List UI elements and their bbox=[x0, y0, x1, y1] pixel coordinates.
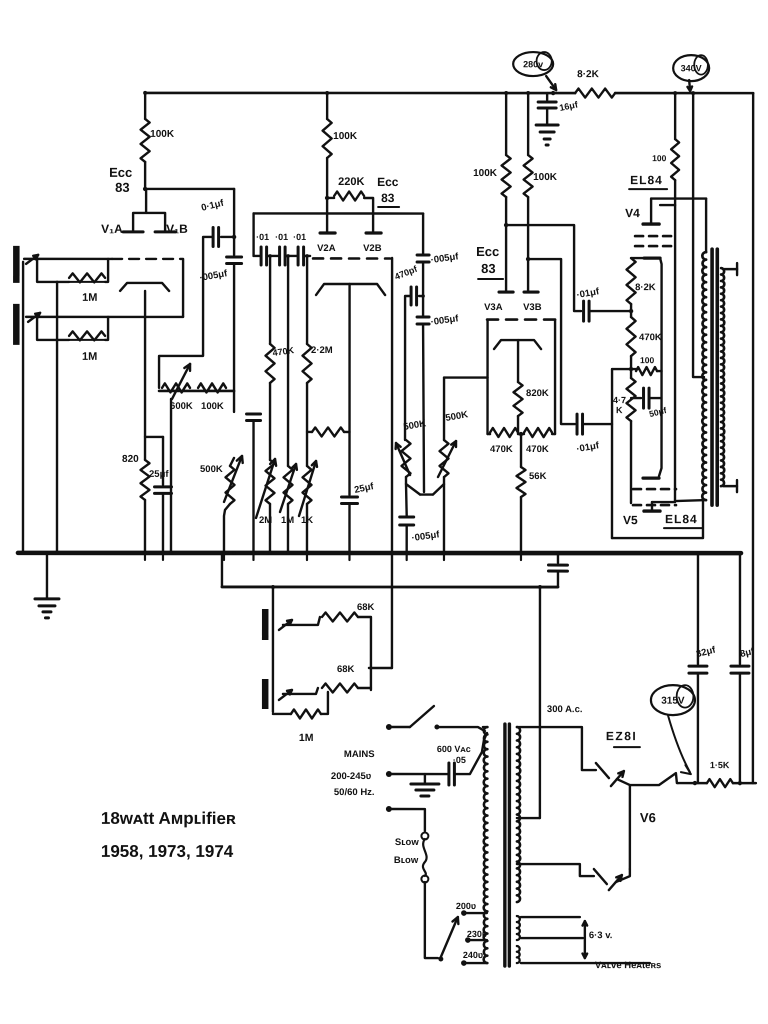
wire C2 left lead down bbox=[159, 237, 213, 388]
svg-text:MAINS: MAINS bbox=[344, 749, 375, 760]
node 470pf tap bbox=[421, 294, 425, 298]
svg-text:200-245ʋ: 200-245ʋ bbox=[331, 771, 372, 782]
wire rectifier output A bbox=[617, 773, 678, 785]
wire heater mid bbox=[521, 937, 583, 939]
svg-text:V₁A: V₁A bbox=[101, 222, 123, 236]
label C2 0.1uF bbox=[200, 197, 226, 213]
wire drop3 mid bbox=[306, 383, 308, 466]
junction bus dot 18 bbox=[738, 551, 742, 555]
wire 220K to V2B plate bbox=[364, 198, 373, 233]
arrow VR7 wiper bbox=[438, 441, 456, 477]
svg-text:V5: V5 bbox=[623, 513, 638, 527]
junction bus2 dot a bbox=[271, 585, 275, 589]
svg-text:820K: 820K bbox=[526, 388, 549, 399]
wire N lead bbox=[392, 773, 448, 775]
tube V6 plate B bbox=[594, 869, 607, 884]
wire V1 cathode drop bbox=[144, 291, 146, 460]
wire V3 box right bbox=[554, 320, 556, 435]
svg-text:280v: 280v bbox=[523, 59, 543, 69]
svg-text:Ecc: Ecc bbox=[476, 244, 499, 259]
wire 1M jack shunt bbox=[273, 713, 291, 715]
arrow VR1 wiper bbox=[172, 364, 190, 399]
wire tone chain top corner bbox=[422, 214, 424, 255]
arrow VR5 wiper bbox=[299, 461, 317, 516]
potentiometer VR2 500K bbox=[226, 466, 235, 504]
wire VR7 diagonal to cup bbox=[433, 484, 444, 495]
junction bus stub 1 bbox=[144, 553, 146, 560]
wire V3 cathode drop bbox=[517, 340, 519, 382]
wire VR1 wiper to bus bbox=[170, 399, 172, 553]
label R13 820K bbox=[526, 388, 549, 399]
junction bus dot 16 bbox=[556, 551, 560, 555]
wire pots row baseline bbox=[159, 390, 234, 393]
wire secondary bus bbox=[222, 586, 558, 589]
wire 470pf right lead bbox=[419, 295, 423, 297]
label C17 16uF bbox=[558, 99, 579, 113]
resistor R8 (V2 cathode tail) bbox=[312, 427, 344, 436]
label VR4 1M bbox=[281, 515, 294, 526]
wire E lead bbox=[392, 809, 425, 831]
svg-text:500K: 500K bbox=[200, 464, 223, 475]
label C10 470pf bbox=[393, 263, 419, 281]
ground symbol (main) bbox=[35, 553, 59, 618]
resistor R13 820K bbox=[514, 382, 523, 416]
label C14 .01uF bbox=[576, 440, 601, 455]
node PI tail bbox=[519, 432, 523, 436]
wire V3B takeoff bbox=[528, 259, 575, 424]
wire C17 riser bbox=[546, 93, 548, 100]
label 8.2K bbox=[577, 69, 599, 80]
junction bus dot 2 bbox=[143, 551, 147, 555]
wire B+ top rail left section bbox=[145, 92, 575, 95]
junction bus dot 15 bbox=[519, 551, 523, 555]
wire C13 to V4 grid chain bbox=[589, 310, 629, 312]
node V1 anode junction bbox=[143, 187, 147, 191]
capacitor C11 .005uF bbox=[417, 317, 429, 324]
wire tone chain seg3 bbox=[422, 296, 424, 316]
tube V3 cathode bbox=[494, 340, 541, 349]
wire OT secondary bottom tap bbox=[723, 480, 737, 492]
svg-text:·01: ·01 bbox=[256, 232, 269, 242]
label VR1 600K bbox=[170, 401, 193, 412]
svg-text:·01: ·01 bbox=[275, 232, 288, 242]
svg-text:50/60 Hᴢ.: 50/60 Hᴢ. bbox=[334, 787, 375, 798]
input jack J1 contact bar bbox=[13, 246, 20, 283]
wire J1 tip lead dashed (shielded) bbox=[112, 258, 180, 260]
tube V2A plate bar bbox=[320, 231, 335, 234]
wire 32uF to 315V node bbox=[697, 673, 699, 783]
wire VR2 to bus bbox=[224, 504, 230, 553]
wire x234 chain mid bbox=[233, 264, 235, 412]
wire R11 to plate bbox=[505, 197, 507, 292]
terminal tap 240V bbox=[461, 960, 467, 966]
voltage bubble 315V bbox=[651, 685, 695, 715]
label .05 bbox=[453, 755, 466, 765]
wire caps row seg3 bbox=[285, 255, 298, 257]
junction bus stub 4 bbox=[252, 553, 254, 560]
wire 8uF drop bbox=[739, 553, 741, 664]
resistor R16 56K bbox=[517, 434, 526, 497]
wire C1 25uF top link bbox=[145, 437, 163, 485]
potentiometer VR7 500K (volume) bbox=[440, 440, 449, 477]
label EZ81 bbox=[606, 729, 640, 747]
label V1A bbox=[101, 222, 123, 236]
resistor R10 220K bbox=[334, 191, 364, 200]
arrow J4 tip contact bbox=[279, 690, 292, 700]
svg-text:820: 820 bbox=[122, 454, 139, 465]
wire bus link riser bbox=[221, 553, 223, 587]
svg-text:470K: 470K bbox=[639, 332, 662, 343]
svg-text:100K: 100K bbox=[533, 172, 558, 183]
tube V3B plate bar bbox=[524, 290, 538, 293]
capacitor C18 32uF bbox=[689, 666, 707, 673]
wire VR2 top link bbox=[230, 458, 234, 466]
label R9 100K bbox=[333, 131, 358, 142]
capacitor C2 0.1uF bbox=[213, 227, 219, 246]
wire V4 plate to OT top bbox=[705, 199, 707, 253]
wire V3A takeoff bbox=[506, 225, 581, 311]
label R11 100K bbox=[473, 168, 498, 179]
wire R22 out corner bbox=[358, 617, 371, 690]
arrow voltage selector bbox=[441, 917, 459, 957]
wire J1 tip lead bbox=[24, 258, 112, 260]
wire V4 plate lead bbox=[650, 199, 652, 225]
label R6 470K bbox=[272, 345, 295, 358]
svg-text:200ʋ: 200ʋ bbox=[456, 901, 476, 911]
label C13 .01uF bbox=[576, 286, 601, 301]
label 200-245V bbox=[331, 771, 372, 782]
transformer PT HT secondary bbox=[517, 727, 520, 902]
svg-text:V₁B: V₁B bbox=[166, 222, 188, 236]
wire main ground bus bbox=[18, 551, 741, 556]
label C18 32uF bbox=[695, 644, 717, 660]
node coupling tap bbox=[232, 235, 236, 239]
ground symbol (mains earth) bbox=[411, 774, 439, 796]
label V5 EL84 bbox=[664, 512, 702, 528]
junction rail dot b bbox=[325, 91, 329, 95]
wire drop1 mid bbox=[269, 383, 271, 460]
arrow J3 tip contact bbox=[279, 620, 292, 630]
arrow VR3 wiper bbox=[256, 459, 276, 518]
resistor R14 470K bbox=[490, 428, 518, 437]
junction bus stub 2 bbox=[162, 553, 164, 560]
wire B+ top rail right section bbox=[615, 92, 753, 95]
wire tap 230V bbox=[468, 939, 487, 941]
label tube V3 ECC83 bbox=[476, 244, 503, 279]
wire HT line right bbox=[733, 782, 756, 784]
input jack J2 contact bar bbox=[13, 304, 20, 345]
tube V5 plate bar bbox=[644, 509, 660, 512]
capacitor C17 16uF bbox=[538, 102, 556, 108]
label C6 .01 bbox=[275, 232, 288, 242]
label R25 1.5K bbox=[710, 760, 730, 770]
junction rail dot f bbox=[691, 91, 695, 95]
tube V4 grid dashes row1 bbox=[635, 235, 675, 238]
capacitor C9 .005uF bbox=[417, 255, 429, 262]
junction rail dot e bbox=[673, 91, 677, 95]
junction bus stub 6 bbox=[348, 553, 350, 560]
svg-text:1958, 1973, 1974: 1958, 1973, 1974 bbox=[101, 842, 234, 861]
svg-text:240ʋ: 240ʋ bbox=[463, 950, 483, 960]
resistor R21 100 bbox=[636, 367, 657, 375]
wire V5 plate lead bbox=[652, 502, 675, 511]
svg-text:220K: 220K bbox=[338, 176, 364, 188]
wire V2A plate lead bbox=[326, 198, 328, 233]
svg-text:83: 83 bbox=[481, 261, 495, 276]
junction bus stub 8 bbox=[443, 553, 445, 560]
arrow J1 tip contact bbox=[26, 255, 38, 264]
wire heater bottom bbox=[521, 962, 650, 964]
svg-text:V2B: V2B bbox=[363, 243, 382, 254]
svg-text:1·5K: 1·5K bbox=[710, 760, 730, 770]
label C7 .01 bbox=[293, 232, 306, 242]
wire cathode capsule right side bbox=[657, 258, 662, 476]
junction rail dot c bbox=[504, 91, 508, 95]
wire VR7 top lead bbox=[443, 378, 445, 440]
svg-text:100K: 100K bbox=[150, 129, 175, 140]
arrow 315V pointer bbox=[668, 715, 691, 774]
junction bus dot 12 bbox=[390, 551, 394, 555]
label C9 .005uF bbox=[430, 251, 460, 266]
svg-text:100K: 100K bbox=[333, 131, 358, 142]
node V3B takeoff bbox=[526, 257, 530, 261]
resistor R22 68K bbox=[322, 612, 358, 621]
svg-text:600K: 600K bbox=[170, 401, 193, 412]
label R21 100 bbox=[640, 355, 654, 365]
tube V3A plate bar bbox=[499, 290, 513, 293]
wire rectifier cathode join bbox=[629, 785, 631, 869]
label VR2 500K bbox=[200, 464, 223, 475]
wire CT riser to bus2 bbox=[539, 587, 541, 818]
terminal mains N bbox=[386, 771, 392, 777]
fuse F1 slow blow bbox=[421, 833, 428, 883]
tube V2B plate bar bbox=[366, 231, 381, 234]
wire V2 grid box top bbox=[254, 212, 423, 214]
label C1 25uF bbox=[149, 469, 169, 480]
svg-text:56K: 56K bbox=[529, 471, 547, 482]
label VR5 1K bbox=[301, 515, 313, 526]
svg-text:8·2K: 8·2K bbox=[635, 282, 656, 293]
svg-text:100: 100 bbox=[652, 153, 666, 163]
potentiometer VR5 1K bbox=[303, 466, 312, 504]
resistor R11 100K (V3 plate load A) bbox=[502, 93, 511, 197]
wire tail resistor link bbox=[307, 431, 312, 433]
svg-text:Vᴀʟve Heᴀteʀs: Vᴀʟve Heᴀteʀs bbox=[595, 960, 661, 971]
svg-text:100K: 100K bbox=[201, 401, 224, 412]
switch SW1 arm bbox=[410, 706, 434, 727]
wire CT line bbox=[517, 817, 540, 819]
wire drop1 to bus bbox=[269, 504, 271, 553]
wire J1-J2 join corner bbox=[180, 259, 183, 317]
wire NFB riser bbox=[391, 553, 393, 668]
wire drop3 upper bbox=[306, 256, 308, 344]
wire OT secondary top tap bbox=[723, 263, 737, 275]
svg-text:K: K bbox=[616, 405, 623, 415]
wire R12 to plate bbox=[527, 197, 529, 292]
svg-text:300 A.c.: 300 A.c. bbox=[547, 704, 583, 715]
resistor R25 1.5K bbox=[707, 779, 733, 787]
arrow 340V pointer bbox=[687, 80, 692, 91]
wire chain node2 bbox=[630, 356, 632, 378]
svg-text:Sʟow: Sʟow bbox=[395, 837, 419, 848]
capacitor C19 8uF bbox=[731, 666, 749, 673]
wire 1M R2 loop right leg bbox=[105, 317, 108, 340]
svg-text:6·3 v.: 6·3 v. bbox=[589, 930, 613, 941]
node grid chain 2 bbox=[629, 367, 633, 371]
wire C16 to bus2 bbox=[557, 571, 559, 587]
wire 1M R2 loop left leg bbox=[37, 317, 69, 340]
junction rail dot d bbox=[526, 91, 530, 95]
capacitor C8 25uF (V2 bypass) bbox=[342, 497, 358, 504]
resistor R24 1M bbox=[291, 709, 321, 718]
wire V4 cathode to chain bbox=[631, 257, 644, 259]
svg-text:V6: V6 bbox=[640, 810, 656, 825]
svg-text:100K: 100K bbox=[473, 168, 498, 179]
svg-text:EL84: EL84 bbox=[630, 173, 663, 187]
svg-text:V3B: V3B bbox=[523, 302, 542, 313]
svg-text:·05: ·05 bbox=[453, 755, 466, 765]
svg-text:V2A: V2A bbox=[317, 243, 336, 254]
label tube V1 ECC83 bbox=[109, 165, 132, 195]
svg-text:2·2M: 2·2M bbox=[311, 345, 333, 356]
wire switch to primary bbox=[437, 727, 485, 731]
node 280V bbox=[551, 91, 555, 95]
resistor R17 100 (screen feed) bbox=[671, 93, 679, 180]
wire R2 underline bbox=[69, 339, 105, 341]
resistor R23 68K bbox=[322, 683, 358, 692]
wire volume to V3 grid bbox=[444, 376, 488, 378]
tube V6 plate A bbox=[596, 763, 609, 778]
wire J4 tip lead bbox=[283, 688, 318, 694]
junction bus dot 7 bbox=[251, 551, 255, 555]
wire NFB junction bbox=[369, 667, 392, 669]
label V3B bbox=[523, 302, 542, 313]
wire chain bottom bbox=[630, 421, 632, 503]
label SLOW BLOW bbox=[394, 837, 419, 866]
svg-text:25μf: 25μf bbox=[149, 469, 169, 480]
wire tail to cathode drop bbox=[344, 431, 350, 433]
wire 1M R1 loop right leg bbox=[105, 259, 108, 282]
resistor R2 1M (grid leak ch2) bbox=[69, 331, 105, 340]
junction bus dot 3 bbox=[161, 551, 165, 555]
transformer PT heater winding 2 bbox=[517, 946, 520, 963]
label V4 EL84 bbox=[629, 173, 667, 189]
label C5 .01 bbox=[256, 232, 269, 242]
node V3A takeoff bbox=[504, 223, 508, 227]
potentiometer VR4 1M bbox=[284, 466, 293, 504]
svg-text:1M: 1M bbox=[82, 292, 97, 304]
wire ground drop from R1 loop bbox=[56, 282, 58, 553]
resistor R6 470K bbox=[266, 344, 275, 383]
node selector pivot bbox=[438, 957, 443, 962]
speaker jack J4 bar bbox=[262, 679, 269, 709]
svg-text:68K: 68K bbox=[337, 664, 355, 675]
wire V1 cathode to bus bbox=[144, 500, 146, 553]
voltage bubble 340V bbox=[673, 55, 709, 81]
wire plate drop x234 bbox=[233, 189, 235, 255]
junction bus stub 3 bbox=[223, 553, 225, 560]
tube V5 grid dashes row2 bbox=[633, 504, 676, 507]
wire VR7 to bus bbox=[443, 477, 445, 553]
wire HT bottom to rectifier bbox=[517, 864, 594, 876]
junction bus dot 6 bbox=[232, 551, 236, 555]
tube V6 cathode A bbox=[611, 771, 624, 786]
svg-text:470K: 470K bbox=[490, 444, 513, 455]
wire VR6 to C12 bbox=[405, 484, 408, 516]
resistor R7 2.2M bbox=[303, 344, 312, 383]
wire C1 to bus bbox=[162, 493, 164, 553]
svg-text:V3A: V3A bbox=[484, 302, 503, 313]
resistor R15 470K bbox=[524, 428, 552, 437]
tube V5 cathode bar bbox=[643, 476, 659, 479]
label title line 1 bbox=[101, 809, 236, 828]
label 240V bbox=[463, 950, 483, 960]
capacitor C1 25uF (V1 bypass) bbox=[155, 487, 172, 494]
wire OT bottom link bbox=[675, 500, 706, 501]
wire 56K to bus bbox=[520, 497, 522, 553]
wire drop2 to bus bbox=[287, 504, 289, 553]
potentiometer VR1 600K bbox=[162, 383, 190, 392]
resistor R4 820 (V1 cathode) bbox=[141, 460, 150, 500]
speaker jack J3 bar bbox=[262, 609, 269, 640]
tube V2 grid dashes bbox=[313, 257, 390, 260]
label R1 1M bbox=[82, 292, 97, 304]
junction bus stub 5 bbox=[306, 553, 308, 560]
capacitor C16 bbox=[548, 565, 567, 571]
wire R23 out bbox=[358, 687, 371, 689]
capacitor C10 470pf bbox=[411, 287, 417, 305]
wire 470pf left lead to VR6 bbox=[405, 296, 411, 440]
wire HT top to rectifier bbox=[517, 727, 596, 770]
wire 8uF lower bbox=[739, 673, 741, 783]
label R20 4.7K bbox=[613, 395, 626, 415]
label R22 68K bbox=[357, 602, 375, 613]
wire bottom row join bbox=[490, 433, 524, 435]
wire V2B output drop bbox=[391, 258, 394, 553]
junction bus dot 9 bbox=[286, 551, 290, 555]
svg-text:68K: 68K bbox=[357, 602, 375, 613]
svg-text:315V: 315V bbox=[661, 696, 685, 707]
wire tone chain to cup bbox=[423, 324, 424, 492]
svg-text:EL84: EL84 bbox=[665, 512, 698, 526]
wire jack ground line bbox=[22, 262, 25, 553]
svg-text:Bʟow: Bʟow bbox=[394, 855, 419, 866]
transformer PT heater winding 1 bbox=[517, 916, 520, 940]
wire tone chain seg2 bbox=[422, 262, 424, 296]
resistor 8.2K (in B+ rail) bbox=[575, 89, 615, 98]
wire drop3 to bus bbox=[306, 504, 308, 553]
junction bus dot 1 bbox=[55, 551, 59, 555]
label tube V2 ECC83 bbox=[377, 175, 399, 207]
svg-text:18wᴀtt Aᴍpʟifieʀ: 18wᴀtt Aᴍpʟifieʀ bbox=[101, 809, 236, 828]
label VR7 500K bbox=[445, 409, 469, 424]
wire jack sleeve line bbox=[272, 587, 274, 712]
label R18 8.2K bbox=[635, 282, 656, 293]
label R14 470K bbox=[490, 444, 513, 455]
arrow VR6 wiper bbox=[396, 443, 410, 475]
wire tap 200V bbox=[464, 912, 487, 914]
label 600Vac bbox=[437, 744, 471, 754]
node switch contact bbox=[434, 725, 439, 730]
wire V4 plate top line bbox=[651, 197, 706, 199]
svg-text:·01: ·01 bbox=[293, 232, 306, 242]
wire R1 underline bbox=[69, 281, 105, 283]
wire C15 right lead bbox=[649, 397, 661, 399]
junction bus2 dot b bbox=[538, 585, 542, 589]
label R12 100K bbox=[533, 172, 558, 183]
label 230V bbox=[467, 929, 487, 939]
label R10 220K bbox=[338, 176, 364, 188]
